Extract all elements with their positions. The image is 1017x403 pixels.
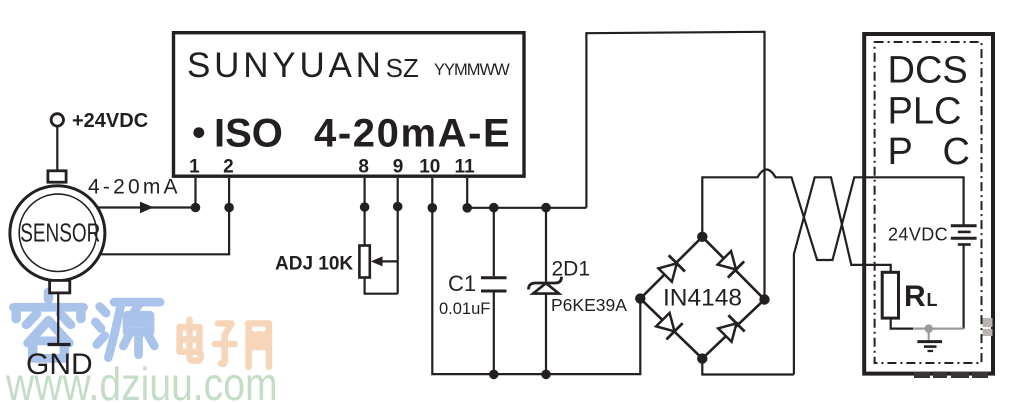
node pin 9 bbox=[393, 202, 403, 212]
watermark 电子网 bbox=[180, 320, 269, 367]
svg-text:SUNYUAN: SUNYUAN bbox=[187, 46, 385, 85]
node pin 2 bbox=[224, 203, 234, 213]
diode D top-left bbox=[657, 255, 685, 283]
svg-text:10: 10 bbox=[419, 156, 440, 177]
node C1 top bbox=[489, 203, 499, 213]
svg-text:C1: C1 bbox=[448, 271, 476, 296]
watermark gray marks right border bbox=[983, 318, 993, 336]
svg-text:9: 9 bbox=[393, 156, 404, 177]
arrow pot wiper bbox=[371, 256, 383, 266]
node pin 10 bbox=[428, 203, 438, 213]
diode bridge IN4148 diamond bbox=[640, 237, 764, 359]
node pin 11 bbox=[462, 203, 472, 213]
svg-text:C: C bbox=[943, 131, 970, 173]
ground symbol DCS bbox=[917, 331, 942, 351]
svg-text:8: 8 bbox=[358, 156, 369, 177]
wire pot wiper bbox=[378, 260, 398, 262]
wire +24VDC to sensor bbox=[56, 126, 58, 171]
wire top rail to bridge right vertex bbox=[586, 32, 764, 300]
wire pot bottom loop bbox=[365, 278, 398, 294]
node bridge top bbox=[697, 232, 707, 242]
svg-text:4-20mA-E: 4-20mA-E bbox=[314, 112, 511, 156]
svg-text:4-20mA: 4-20mA bbox=[88, 176, 181, 199]
node 2D1 top bbox=[541, 203, 551, 213]
svg-text:R: R bbox=[904, 280, 926, 313]
svg-text:ADJ 10K: ADJ 10K bbox=[275, 254, 353, 275]
svg-text:11: 11 bbox=[455, 156, 476, 177]
wire pin 9 stub bbox=[397, 178, 399, 294]
diode D top-right bbox=[716, 250, 744, 278]
diode D bottom-left bbox=[655, 312, 683, 340]
diode D bottom-right bbox=[717, 315, 745, 343]
node C1 bottom bbox=[489, 370, 499, 380]
module box SUNYUAN ISO 4-20mA-E bbox=[174, 33, 525, 177]
DCS box outer bbox=[864, 34, 993, 374]
node pin 8 bbox=[360, 202, 370, 212]
svg-text:2: 2 bbox=[223, 156, 234, 177]
svg-text:DCS: DCS bbox=[888, 50, 968, 92]
svg-text:SZ: SZ bbox=[386, 53, 419, 83]
svg-text:GND: GND bbox=[26, 348, 93, 381]
node ground junction bbox=[925, 324, 933, 332]
bullet ISO dot bbox=[193, 127, 204, 138]
wire pin 1 stub bbox=[194, 178, 196, 208]
svg-text:L: L bbox=[927, 290, 938, 310]
svg-text:PLC: PLC bbox=[888, 91, 962, 133]
ground GND bar bbox=[48, 343, 71, 346]
wire node rail pins 11 to corner bbox=[467, 207, 586, 209]
sensor SENSOR bbox=[10, 171, 105, 293]
wire pin 8 stub bbox=[364, 178, 366, 246]
arrow 4-20mA flow bbox=[140, 202, 154, 214]
wire twisted pair return (wire B) bbox=[794, 177, 891, 374]
svg-text:0.01uF: 0.01uF bbox=[439, 300, 490, 318]
svg-text:+24VDC: +24VDC bbox=[72, 110, 148, 132]
svg-text:P: P bbox=[888, 131, 913, 173]
svg-text:2D1: 2D1 bbox=[552, 258, 591, 281]
wire gray to ground node bbox=[913, 328, 964, 330]
svg-text:1: 1 bbox=[189, 156, 200, 177]
svg-text:SENSOR: SENSOR bbox=[20, 218, 100, 248]
watermark 容源 bbox=[14, 292, 160, 358]
diode 2D1 TVS bbox=[529, 208, 562, 375]
potentiometer ADJ 10K bbox=[359, 246, 369, 278]
wire pin 11 stub bbox=[466, 178, 468, 208]
wire sensor to GND bbox=[57, 293, 59, 345]
svg-text:ISO: ISO bbox=[214, 112, 283, 156]
svg-text:P6KE39A: P6KE39A bbox=[551, 295, 627, 315]
node 2D1 bottom bbox=[541, 370, 551, 380]
resistor RL bbox=[882, 272, 898, 318]
battery 24VDC bbox=[951, 226, 977, 329]
wire bridge top to twisted pair (wire A) with hop bbox=[702, 170, 963, 261]
svg-text:YYMMWW: YYMMWW bbox=[434, 61, 510, 79]
wire pin 2 down and back to sensor bbox=[98, 178, 229, 254]
wire RL bottom bbox=[891, 318, 913, 329]
node bridge right bbox=[759, 294, 769, 304]
node bridge bottom bbox=[697, 353, 707, 363]
wire sensor output to pin 1 bbox=[98, 206, 196, 208]
wire bridge bottom return rail bbox=[702, 359, 794, 375]
node bridge left bbox=[635, 293, 645, 303]
node pin 1 bbox=[191, 203, 201, 213]
capacitor C1 bbox=[481, 208, 507, 375]
DCS box inner dash-dot border bbox=[875, 42, 982, 363]
terminal +24VDC bbox=[51, 114, 63, 126]
svg-text:24VDC: 24VDC bbox=[888, 224, 948, 244]
wire pin 10 down to bottom rail and to bridge left vertex bbox=[432, 178, 640, 374]
svg-text:IN4148: IN4148 bbox=[663, 285, 742, 312]
